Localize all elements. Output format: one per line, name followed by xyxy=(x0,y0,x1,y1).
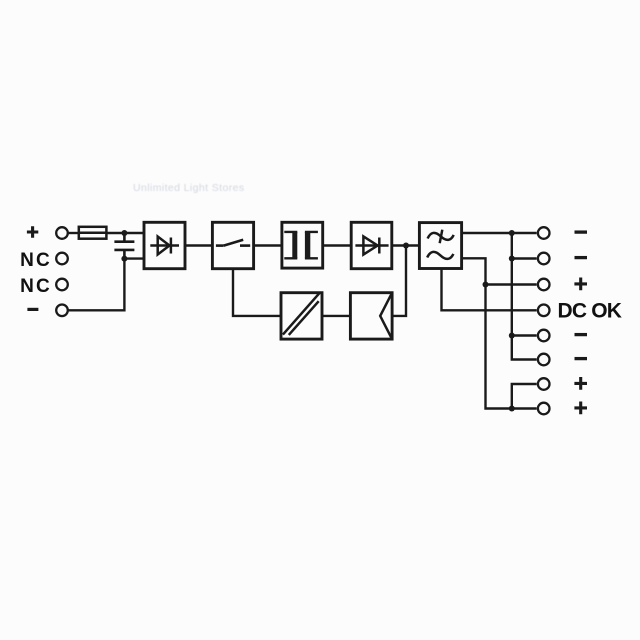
label − row2 xyxy=(575,256,588,259)
wire J2 down to − terminal xyxy=(69,259,125,311)
label − (input minus) xyxy=(27,308,38,311)
wire U2 bottom to isolation block xyxy=(233,269,281,316)
terminal out 7 + xyxy=(538,378,550,390)
wire J2 to rectifier block xyxy=(124,257,144,259)
terminal out 5 − xyxy=(538,330,550,342)
capacitor C1 xyxy=(114,233,134,259)
wire row3 to terminal xyxy=(486,283,537,285)
bus A vertical xyxy=(512,233,537,360)
terminal input NC1 xyxy=(56,253,68,265)
wire U3 to output filter block xyxy=(392,244,420,246)
wire row5 to terminal xyxy=(512,334,537,336)
label + row7 xyxy=(574,377,587,390)
sine top with chop xyxy=(428,230,454,244)
wire fuse to rectifier block xyxy=(106,232,144,234)
terminal out 2 − xyxy=(538,253,550,265)
fuse F1 xyxy=(79,227,107,239)
label − row5 xyxy=(575,333,588,336)
diode block U3 xyxy=(351,222,392,268)
wire U5 to feedback amp xyxy=(322,315,350,317)
wire U4 lower output / bus B xyxy=(462,258,537,408)
terminal input − xyxy=(56,305,68,317)
svg-text:Unlimited Light Stores: Unlimited Light Stores xyxy=(133,182,245,194)
svg-text:NC: NC xyxy=(20,276,52,297)
switch S1 xyxy=(216,240,250,246)
rectifier block U1 xyxy=(144,222,185,268)
label + row8 xyxy=(574,402,587,415)
terminal out 4 DC OK xyxy=(538,305,550,317)
feedback amp block U6 xyxy=(350,293,392,339)
node J3 xyxy=(403,243,409,249)
wire U4 upper output to terminal row1 xyxy=(462,232,537,234)
wire row2 to terminal xyxy=(512,257,537,259)
feedback amp chevron xyxy=(380,294,391,337)
node J4 xyxy=(509,230,515,236)
wire T1 to diode block xyxy=(323,244,352,246)
svg-text:NC: NC xyxy=(20,250,52,271)
diode D2 xyxy=(355,236,388,254)
label − row6 xyxy=(575,357,588,360)
isolation block U5 xyxy=(281,293,322,339)
wire U2 to transformer block xyxy=(254,244,282,246)
switch block U2 xyxy=(212,222,253,268)
terminal input + xyxy=(56,227,68,239)
transformer block T1 xyxy=(282,222,323,268)
terminal out 1 − xyxy=(538,227,550,239)
sine bottom xyxy=(427,252,453,259)
node J7 xyxy=(509,333,515,339)
node J5 xyxy=(509,256,515,262)
diode D1 xyxy=(150,237,179,255)
wire + terminal to fuse xyxy=(69,232,79,234)
terminal input NC2 xyxy=(56,279,68,291)
terminal out 6 − xyxy=(538,354,550,366)
wire J3 down to feedback amp xyxy=(392,246,406,316)
wire U1 to switch block xyxy=(185,244,212,246)
node J6 xyxy=(483,282,489,288)
terminal out 3 + xyxy=(538,279,550,291)
transformer windings xyxy=(284,232,318,258)
svg-text:DC OK: DC OK xyxy=(558,300,622,323)
wire row7 riser to terminal xyxy=(512,384,537,409)
isolation diagonals xyxy=(283,293,320,335)
label − row1 xyxy=(575,230,588,233)
node J1 xyxy=(121,230,127,236)
terminal out 8 + xyxy=(538,403,550,415)
output filter block U4 xyxy=(419,223,461,269)
wire DC OK from U4 bottom xyxy=(442,269,537,311)
label + (input plus) xyxy=(27,226,38,237)
node J8 xyxy=(509,406,515,412)
node J2 xyxy=(121,256,127,262)
label + row3 xyxy=(574,278,587,291)
